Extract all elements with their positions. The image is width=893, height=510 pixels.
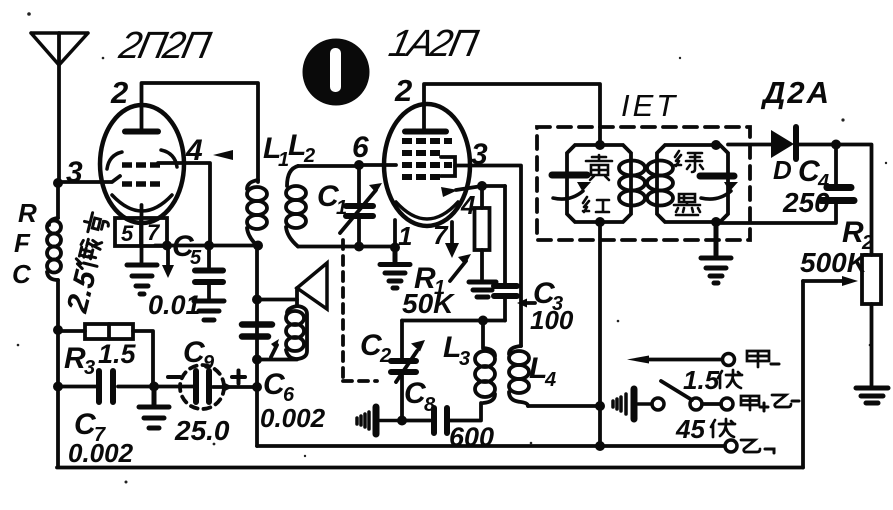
cathode arc V2 xyxy=(396,202,458,219)
svg-text:1: 1 xyxy=(336,197,347,219)
wire primary bottom down x600 xyxy=(598,222,602,446)
label 乙+ (B) xyxy=(741,440,774,453)
svg-text:Д2А: Д2А xyxy=(760,75,831,110)
wire L2 top to node 6 xyxy=(298,164,359,168)
node R3 left xyxy=(53,325,63,335)
wire cathode V1 down xyxy=(140,205,144,262)
wire C7 to C9 xyxy=(154,385,193,389)
resistor R2 potentiometer xyxy=(862,255,881,386)
wire grid lead tube V1 xyxy=(58,176,120,182)
svg-text:3: 3 xyxy=(84,357,95,379)
node pin1 xyxy=(390,243,400,253)
node speaker bottom xyxy=(252,355,262,365)
resistor R1 xyxy=(475,186,490,279)
wire speaker bottom xyxy=(257,358,297,362)
tube V1 base box with pins 5,7 xyxy=(115,218,167,246)
svg-text:9: 9 xyxy=(203,352,215,374)
grid dashes V1 xyxy=(122,165,160,184)
label 2.5 microhenry rotated xyxy=(61,211,117,317)
label C8 xyxy=(404,377,436,416)
node diode out xyxy=(831,140,841,150)
label C9 xyxy=(183,336,215,374)
svg-text:8: 8 xyxy=(424,394,436,416)
wire speaker top xyxy=(257,298,297,302)
capacitor C8 xyxy=(402,403,481,433)
svg-text:R: R xyxy=(64,342,86,375)
inductor L3 xyxy=(475,321,495,404)
node secondary bottom xyxy=(711,217,721,227)
wire plate V2 to IET xyxy=(424,84,600,145)
wire L2 bottom to tube V2 pin1 xyxy=(298,245,395,249)
label C6 xyxy=(263,368,295,406)
tube V1 2П2П envelope xyxy=(100,105,184,223)
wire antenna vertical to RFC and R3 xyxy=(56,183,60,467)
wire plate V1 to L1 top xyxy=(142,83,259,182)
wire L4 to x600 xyxy=(528,404,600,408)
plate bar V1 xyxy=(125,129,158,135)
wire diode node to R2 xyxy=(836,145,872,256)
pin 3 wire V2 to L4 xyxy=(455,166,521,347)
grid brackets V1 xyxy=(107,150,177,169)
node R1 top xyxy=(477,181,487,191)
diode D Д2А xyxy=(771,127,836,159)
char yellow 黄 xyxy=(586,155,612,180)
label 甲+乙- (A+ B-) xyxy=(741,395,799,411)
node C2 bottom xyxy=(397,416,407,426)
capacitor C1 variable xyxy=(340,165,382,247)
pin 7 wire V2 with arrow xyxy=(450,222,454,243)
svg-text:2: 2 xyxy=(110,75,128,110)
node primary bottom xyxy=(595,217,605,227)
bottom rail outer xyxy=(57,466,803,470)
capacitor C6 xyxy=(242,325,272,337)
svg-text:R: R xyxy=(18,198,37,228)
wire node to C3 branch xyxy=(482,184,505,188)
arrow wedge pointing left at pin 4 xyxy=(213,150,233,160)
node L4/x600 xyxy=(595,401,605,411)
node L3 top xyxy=(478,316,488,326)
label C4 xyxy=(798,155,829,193)
inductor L1 xyxy=(247,180,267,246)
svg-text:R: R xyxy=(842,216,864,249)
speaker earphone xyxy=(286,263,327,359)
svg-text:7: 7 xyxy=(433,220,449,250)
switch chassis ground xyxy=(613,389,652,419)
ground below C7/R3 junction xyxy=(139,389,169,428)
char black 黑 xyxy=(674,194,700,215)
node C7 left xyxy=(53,382,63,392)
wire wedge to R1 node xyxy=(456,186,482,190)
plus sign C9 xyxy=(232,371,245,384)
node 6 xyxy=(354,160,364,170)
transformer primary loop xyxy=(567,145,631,222)
dashed gang line C1-C2 xyxy=(343,240,377,381)
node x600 on inner rail xyxy=(595,441,605,451)
wire main vertical x=257 (L1 bottom to bottom rail) xyxy=(255,246,259,447)
IET dashed box xyxy=(537,127,750,240)
label L4 xyxy=(529,352,556,391)
svg-text:50K: 50K xyxy=(402,288,455,319)
svg-text:2: 2 xyxy=(379,345,391,367)
label C3 with arrow xyxy=(523,301,535,305)
svg-text:1.5: 1.5 xyxy=(683,365,720,395)
primary trimmer capacitor xyxy=(552,172,587,179)
label L2 xyxy=(288,129,315,167)
minus sign C9 xyxy=(168,375,180,379)
capacitor C5 xyxy=(195,246,223,299)
svg-text:3: 3 xyxy=(459,348,470,370)
inductor L2 xyxy=(286,166,306,247)
ground under pin1 V2 xyxy=(380,248,410,289)
char red 红 xyxy=(583,197,609,212)
label R1 with arrow xyxy=(414,262,445,299)
primary coil loops xyxy=(619,161,645,206)
label L1 xyxy=(263,132,289,171)
plate bar V2 xyxy=(405,129,446,135)
bottom rail inner (B+ line) xyxy=(257,444,725,448)
ground under R2 xyxy=(856,388,888,403)
wire antenna down lead xyxy=(57,33,61,183)
label R3 xyxy=(64,342,95,379)
wire secondary top to diode xyxy=(728,143,771,147)
tube V2 1А2П envelope xyxy=(384,104,470,226)
svg-text:7: 7 xyxy=(147,220,161,245)
arrow down at V1 base xyxy=(166,249,170,268)
svg-text:IET: IET xyxy=(621,88,678,123)
node A antenna/grid junction xyxy=(53,178,63,188)
node at base box xyxy=(162,241,172,251)
svg-text:250: 250 xyxy=(782,187,830,218)
svg-text:2: 2 xyxy=(394,73,412,108)
svg-text:5: 5 xyxy=(190,247,202,269)
svg-text:1.5: 1.5 xyxy=(98,339,137,369)
svg-text:2П2П: 2П2П xyxy=(115,24,215,67)
capacitor C7 xyxy=(58,371,154,402)
mesh frame hook V2 xyxy=(441,157,455,176)
svg-text:0.01: 0.01 xyxy=(148,290,201,320)
svg-text:100: 100 xyxy=(530,305,574,335)
transformer secondary loop xyxy=(657,145,728,222)
wire pin4 V1 to bottom wire xyxy=(158,163,210,246)
wiper arrow R2 xyxy=(803,279,843,283)
antenna xyxy=(31,33,88,65)
capacitor C9 electrolytic xyxy=(180,365,257,409)
wedge electrode V2 xyxy=(441,187,458,197)
battery terminal row A- xyxy=(627,354,735,366)
label C1 xyxy=(317,180,347,219)
node C5 top xyxy=(204,241,214,251)
label RFC xyxy=(12,198,37,289)
wire wiper to bottom rail xyxy=(801,281,805,468)
label C7 xyxy=(74,408,106,446)
svg-text:F: F xyxy=(14,228,31,258)
svg-text:5: 5 xyxy=(121,221,134,246)
svg-text:3: 3 xyxy=(471,138,488,171)
capacitor C2 variable xyxy=(391,321,425,421)
svg-text:1: 1 xyxy=(398,221,412,251)
terminal B+ xyxy=(725,440,737,452)
svg-text:0.002: 0.002 xyxy=(68,438,134,468)
node C7 right / ground junction xyxy=(149,382,159,392)
svg-text:0.002: 0.002 xyxy=(260,403,326,433)
wire bottom V1 pins to L1 bottom xyxy=(155,244,258,248)
label L3 xyxy=(443,331,470,370)
char green 绿 xyxy=(675,151,703,172)
chassis ground at C2 xyxy=(357,407,402,434)
switch S1 xyxy=(652,381,733,410)
resistor R3 xyxy=(58,324,153,387)
secondary coil loops xyxy=(647,161,673,206)
svg-text:25.0: 25.0 xyxy=(174,415,230,446)
wire bottom R1/C3/L3 xyxy=(402,319,505,323)
grid wire into V2 xyxy=(359,163,396,167)
node C9 wire xyxy=(252,382,262,392)
pin 1 wire V2 xyxy=(393,220,397,248)
label C2 xyxy=(360,329,391,367)
node C1 bottom xyxy=(354,242,364,252)
inductor L4 xyxy=(509,346,529,406)
ground under tube V1 xyxy=(127,265,157,294)
grid mesh V2 xyxy=(402,141,452,177)
arrow at C6/speaker xyxy=(271,345,277,357)
secondary trimmer capacitor xyxy=(700,173,734,180)
svg-text:4: 4 xyxy=(544,369,556,391)
capacitor C4 xyxy=(716,145,854,224)
ground under R1 xyxy=(469,282,496,297)
cathode arc V1 xyxy=(112,195,172,211)
svg-text:500K: 500K xyxy=(800,247,869,278)
node speaker top xyxy=(252,295,262,305)
svg-text:1А2П: 1А2П xyxy=(385,22,482,65)
node primary top xyxy=(595,140,605,150)
svg-text:3: 3 xyxy=(66,156,83,189)
ground under C5 xyxy=(194,301,224,320)
svg-text:D: D xyxy=(773,155,792,185)
svg-text:6: 6 xyxy=(352,131,369,164)
node secondary top xyxy=(711,140,721,150)
svg-text:C: C xyxy=(12,259,32,289)
ground under secondary xyxy=(701,222,731,283)
node L1 bottom xyxy=(253,241,263,251)
svg-text:2: 2 xyxy=(303,145,315,167)
label C5 xyxy=(172,230,202,269)
tuning knob indicator xyxy=(303,39,370,106)
capacitor C3 xyxy=(494,186,517,321)
label R2 xyxy=(842,216,873,254)
label 甲- (A-) xyxy=(747,351,779,367)
inductor RFC choke xyxy=(47,218,61,280)
svg-text:45: 45 xyxy=(675,414,705,444)
